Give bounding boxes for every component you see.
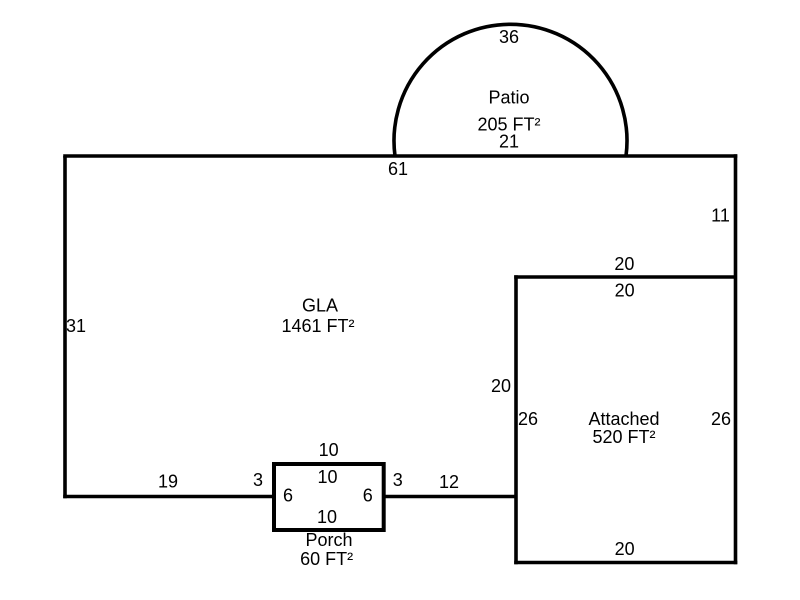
svg-text:26: 26: [711, 409, 731, 429]
wire: Attached garage left wall: [514, 275, 518, 564]
wire: GLA top wall: [63, 154, 737, 158]
svg-text:1461 FT²: 1461 FT²: [281, 316, 354, 336]
wire: Attached garage top wall: [514, 275, 735, 279]
patio arc: [394, 24, 627, 156]
wire: GLA bottom wall right segment (12 ft): [383, 495, 517, 499]
svg-text:31: 31: [66, 316, 86, 336]
svg-text:Porch: Porch: [305, 530, 352, 550]
svg-text:Patio: Patio: [488, 88, 529, 108]
svg-text:61: 61: [388, 159, 408, 179]
svg-text:26: 26: [518, 409, 538, 429]
wire: GLA bottom wall left segment (19 ft): [63, 495, 275, 499]
svg-text:10: 10: [317, 507, 337, 527]
porch outline: [274, 464, 384, 530]
svg-text:Attached: Attached: [588, 409, 659, 429]
svg-text:20: 20: [491, 376, 511, 396]
svg-text:3: 3: [393, 470, 403, 490]
svg-text:12: 12: [439, 472, 459, 492]
svg-text:10: 10: [317, 467, 337, 487]
svg-text:GLA: GLA: [302, 296, 338, 316]
svg-text:11: 11: [711, 206, 730, 226]
svg-text:36: 36: [499, 27, 519, 47]
wire: Attached garage bottom wall: [514, 561, 737, 565]
svg-text:520 FT²: 520 FT²: [592, 427, 655, 447]
svg-text:19: 19: [158, 472, 178, 492]
svg-text:3: 3: [253, 470, 263, 490]
wire: GLA left wall: [63, 156, 67, 498]
svg-text:10: 10: [319, 440, 339, 460]
wire: right wall (GLA + Attached): [734, 154, 738, 564]
svg-text:20: 20: [615, 280, 635, 300]
svg-text:20: 20: [614, 254, 634, 274]
svg-text:6: 6: [363, 485, 373, 505]
svg-text:6: 6: [283, 485, 293, 505]
svg-text:20: 20: [615, 539, 635, 559]
svg-text:21: 21: [499, 132, 519, 152]
svg-text:60 FT²: 60 FT²: [300, 549, 353, 569]
